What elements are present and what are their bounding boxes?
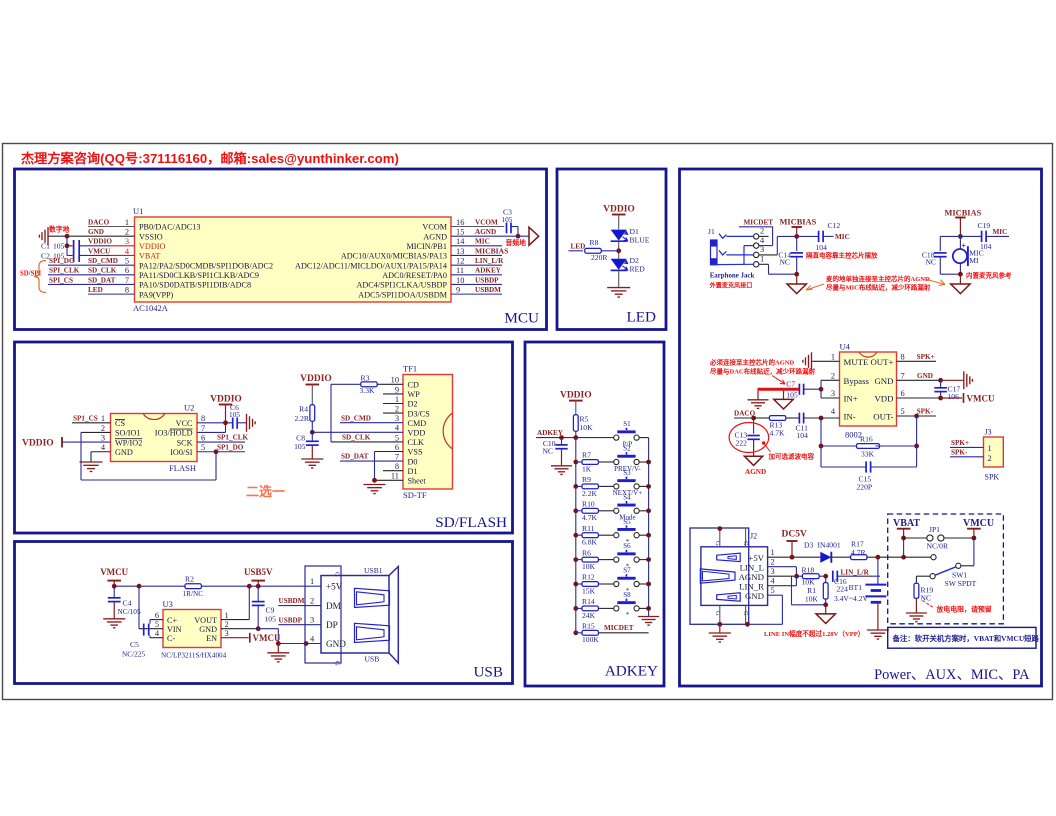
svg-text:SPK+: SPK+: [917, 353, 935, 361]
VDDIO power port LED block: [603, 205, 635, 230]
wire DACO to U1 pin 1: [88, 218, 135, 226]
svg-text:NC: NC: [925, 257, 936, 266]
U1 right pin numbers 16-9: [456, 218, 465, 295]
svg-text:7: 7: [201, 424, 205, 433]
svg-text:SP1_CS: SP1_CS: [73, 414, 98, 422]
svg-text:USB1: USB1: [364, 566, 383, 575]
svg-text:8: 8: [901, 352, 905, 361]
wire U1 pin 10 USBDP: [451, 276, 502, 284]
switch S5 spare: [614, 518, 649, 546]
wire D1 cathode to junction: [616, 241, 621, 259]
analog ground triangle mic section: [951, 272, 970, 294]
ground symbol under J2: [709, 633, 731, 642]
wire SD_CLK to TF1 CLK: [331, 434, 403, 442]
svg-text:PA10/SD0DATB/SPI1DIB/ADC8: PA10/SD0DATB/SPI1DIB/ADC8: [139, 281, 251, 290]
svg-text:2: 2: [310, 596, 314, 605]
svg-text:VBAT: VBAT: [893, 518, 920, 529]
svg-text:MICIN/PB1: MICIN/PB1: [407, 242, 448, 251]
svg-text:LED: LED: [626, 309, 656, 326]
ADKEY block title: [605, 663, 658, 680]
U4 internal labels and pin numbers: [831, 352, 905, 421]
svg-text:15: 15: [456, 228, 464, 237]
svg-text:G: G: [334, 572, 341, 577]
svg-text:S4: S4: [623, 493, 631, 501]
resistor R5 10K: [573, 414, 593, 437]
capacitor C9 105: [252, 586, 276, 629]
svg-text:3: 3: [125, 237, 129, 246]
svg-text:J2: J2: [750, 532, 757, 541]
svg-text:1: 1: [760, 255, 764, 264]
capacitor C17 106: [934, 380, 960, 401]
svg-text:C12: C12: [828, 221, 841, 230]
VDDIO power port to U2 pin 3: [22, 437, 111, 449]
wire U4 MUTE to ground: [812, 360, 840, 362]
resistor R1 10K to ground: [792, 576, 829, 607]
svg-text:GND: GND: [199, 625, 217, 634]
speaker connector J3: [984, 428, 1004, 482]
wire LED to U1 pin 8: [88, 286, 135, 294]
svg-text:SD_DAT: SD_DAT: [88, 276, 116, 284]
capacitor C13 222 optional: [735, 418, 760, 456]
wire GND net U1 pin 2: [48, 228, 135, 239]
svg-text:MICBIAS: MICBIAS: [780, 218, 817, 227]
svg-text:NC/0R: NC/0R: [927, 542, 949, 551]
capacitor C14 NC: [778, 236, 803, 274]
svg-text:U1: U1: [133, 206, 143, 216]
svg-text:AGND: AGND: [745, 468, 766, 476]
resistor R17 4.7R: [851, 540, 903, 560]
ground symbol under C8: [301, 459, 323, 468]
capacitor C8 105: [294, 432, 319, 459]
wire SD_DAT to TF1 D0: [340, 453, 403, 461]
resistor R3 3.3K pullup: [331, 373, 403, 395]
VMCU power port dashed box: [963, 518, 994, 540]
ground bars under red bar: [748, 391, 769, 409]
svg-text:USBDM: USBDM: [279, 597, 305, 605]
svg-text:VMCU: VMCU: [253, 633, 281, 643]
svg-text:C5: C5: [130, 640, 139, 649]
svg-text:C9: C9: [266, 605, 275, 614]
capacitor C6 105: [229, 403, 246, 429]
capacitor C2 105: [41, 240, 79, 262]
ADKEY right switch bus to ground: [646, 438, 651, 617]
red note internal mic reference: [966, 271, 1012, 280]
svg-text:DM: DM: [326, 601, 341, 611]
svg-text:VMCU: VMCU: [88, 247, 111, 255]
svg-text:VCOM: VCOM: [422, 223, 447, 232]
resistor R7 1K: [576, 451, 614, 474]
svg-text:IN4001: IN4001: [818, 541, 841, 550]
capacitor C11 104: [796, 413, 822, 440]
svg-text:5: 5: [901, 407, 905, 416]
svg-text:104: 104: [816, 243, 828, 252]
J1 pin contact circles: [754, 227, 766, 267]
svg-text:MICDET: MICDET: [744, 218, 774, 226]
svg-text:OUT-: OUT-: [873, 412, 893, 422]
svg-text:R12: R12: [582, 573, 595, 582]
svg-text:VDD: VDD: [408, 429, 426, 438]
svg-text:MICBIAS: MICBIAS: [945, 208, 982, 217]
svg-text:LINE IN幅度不超过1.28V（VPP）: LINE IN幅度不超过1.28V（VPP）: [764, 629, 864, 638]
svg-text:SD_CLK: SD_CLK: [342, 434, 371, 442]
capacitor C3 105: [502, 208, 513, 234]
switch S2 PREV/V-: [614, 445, 649, 473]
svg-text:必须连接至主控芯片的AGND: 必须连接至主控芯片的AGND: [710, 358, 794, 367]
wire AGND J2 pin 3: [768, 574, 799, 605]
wire U4 OUT- to SPK-: [897, 407, 937, 418]
svg-text:2.2K: 2.2K: [582, 489, 597, 498]
resistor R8 220R: [585, 238, 619, 262]
wire USBDM to USB1: [278, 597, 321, 605]
wire main 5V rail USB block: [112, 584, 321, 589]
svg-text:MCU: MCU: [504, 310, 539, 327]
svg-text:R9: R9: [582, 475, 591, 484]
J2 pin numbers and names: [739, 548, 776, 601]
svg-text:ADC0/RESET/PA0: ADC0/RESET/PA0: [382, 271, 447, 280]
wire jack tip to J1 pin 2: [726, 235, 753, 237]
svg-text:C1: C1: [41, 242, 50, 251]
J1 pin 2 stub wire: [759, 235, 769, 237]
ADKEY block frame: [525, 342, 664, 686]
svg-text:D1: D1: [408, 467, 418, 476]
microphone MIC MI: [953, 236, 984, 274]
feedback loop verticals: [819, 416, 919, 467]
svg-text:105: 105: [53, 242, 65, 251]
svg-text:SD_CMD: SD_CMD: [88, 257, 118, 265]
svg-text:104: 104: [980, 242, 992, 251]
svg-text:+5V: +5V: [748, 553, 764, 563]
svg-text:VIN: VIN: [167, 625, 182, 634]
svg-text:2: 2: [101, 424, 105, 433]
U1 internal pin names: [139, 223, 448, 300]
battery BT1 3.4V-4.2V: [834, 557, 886, 630]
wire TF1 Sheet pin to ground: [372, 478, 403, 483]
audio ground triangle: [506, 227, 539, 247]
svg-text:LIN_L/R: LIN_L/R: [475, 257, 504, 265]
svg-text:NC: NC: [779, 257, 790, 266]
svg-text:1: 1: [101, 414, 105, 423]
line-in connector J2 shell: [690, 528, 757, 624]
mcu U1 AC1042A body: [133, 206, 451, 313]
svg-text:10K: 10K: [805, 594, 819, 603]
svg-text:9: 9: [456, 286, 460, 295]
svg-text:IN-: IN-: [844, 412, 856, 422]
svg-text:FLASH: FLASH: [169, 463, 196, 473]
svg-text:S8: S8: [623, 591, 631, 599]
svg-text:LED: LED: [571, 242, 586, 250]
wire VMCU to U1 pin 4: [67, 247, 135, 255]
resistor R12 15K: [576, 573, 614, 596]
svg-text:ADC5/SPI1DOA/USBDM: ADC5/SPI1DOA/USBDM: [358, 290, 447, 299]
SD/FLASH block frame: [15, 342, 513, 533]
svg-text:Power、AUX、MIC、PA: Power、AUX、MIC、PA: [874, 667, 1030, 683]
svg-text:33K: 33K: [861, 450, 875, 459]
switch S7 spare: [614, 567, 649, 595]
svg-text:SO/IO1: SO/IO1: [115, 429, 140, 438]
svg-text:SD_CLK: SD_CLK: [88, 267, 117, 275]
svg-text:R10: R10: [582, 500, 595, 509]
amplifier U4 8002 body: [840, 342, 897, 440]
svg-text:1: 1: [310, 577, 314, 586]
svg-text:NC/LP3211S/HX4004: NC/LP3211S/HX4004: [161, 652, 227, 660]
svg-text:R18: R18: [802, 565, 815, 574]
svg-text:R5: R5: [580, 414, 589, 423]
capacitor C10 NC: [542, 438, 567, 466]
svg-text:106: 106: [948, 392, 960, 401]
svg-text:1K: 1K: [582, 464, 592, 473]
Power AUX MIC PA block frame: [680, 169, 1042, 686]
sd socket TF1 body: [403, 364, 453, 501]
svg-text:ADC10/AUX0/MICBIAS/PA13: ADC10/AUX0/MICBIAS/PA13: [341, 252, 447, 261]
TF1 stub pins 9 1 2 8: [383, 394, 403, 471]
svg-text:DC5V: DC5V: [782, 530, 807, 540]
MICBIAS power port J1 section: [780, 218, 817, 237]
resistor R6 10K: [576, 548, 614, 571]
VBAT power port: [893, 518, 920, 560]
svg-text:TF1: TF1: [403, 364, 417, 374]
svg-text:12: 12: [456, 257, 464, 266]
MCU block frame: [15, 169, 547, 330]
svg-text:GND: GND: [745, 591, 764, 601]
wire U2 pin 8 VCC to VDDIO and C6: [197, 420, 232, 425]
VDDIO power port ADKEY: [560, 390, 592, 415]
svg-text:222: 222: [736, 438, 748, 447]
svg-text:3: 3: [760, 245, 764, 254]
svg-text:IO0/SI: IO0/SI: [170, 448, 193, 457]
red note mic ground routing with arrows: [806, 274, 945, 292]
svg-text:VDDIO: VDDIO: [22, 439, 54, 449]
capacitor C18 NC branch: [922, 236, 961, 274]
svg-text:USB: USB: [365, 655, 380, 664]
svg-text:CS: CS: [115, 419, 125, 428]
svg-text:3: 3: [310, 616, 314, 625]
svg-text:8: 8: [201, 414, 205, 423]
svg-text:GND: GND: [115, 448, 133, 457]
resistor R18 10K: [797, 565, 829, 586]
svg-text:3: 3: [395, 414, 399, 423]
svg-text:D2: D2: [408, 400, 418, 409]
svg-text:3: 3: [225, 629, 229, 638]
svg-text:VMCU: VMCU: [967, 394, 995, 404]
USB1 pin numbers and names: [310, 577, 346, 649]
svg-text:100K: 100K: [582, 635, 599, 644]
wire SP1_CLK from U2 pin 6: [197, 434, 249, 442]
svg-text:音频地: 音频地: [506, 238, 527, 247]
analog ground triangle J1 section: [787, 274, 806, 293]
svg-text:R4: R4: [299, 404, 308, 413]
svg-text:ADC12/ADC11/MICLDO/AUX1/PA15/P: ADC12/ADC11/MICLDO/AUX1/PA15/PA14: [295, 261, 447, 270]
digital ground symbol left of U1: [39, 225, 69, 246]
svg-text:USBDM: USBDM: [475, 286, 501, 294]
ground symbol under C10: [551, 466, 572, 475]
svg-text:105: 105: [265, 615, 277, 624]
svg-text:BLUE: BLUE: [630, 235, 650, 244]
capacitor C4 NC/105: [108, 586, 141, 619]
svg-text:5: 5: [395, 433, 399, 442]
svg-text:D0: D0: [408, 457, 418, 466]
svg-text:D3/CS: D3/CS: [408, 409, 431, 418]
wire USBDP to USB1: [278, 616, 321, 624]
svg-text:MUTE: MUTE: [844, 357, 869, 367]
svg-text:LIN_R: LIN_R: [739, 581, 764, 591]
svg-text:NC/105: NC/105: [118, 607, 141, 616]
svg-text:SD/FLASH: SD/FLASH: [435, 514, 507, 531]
ground symbol under BT1: [867, 630, 889, 639]
svg-text:1R/NC: 1R/NC: [183, 589, 204, 598]
svg-text:10K: 10K: [580, 423, 594, 432]
wire C11 to U4 IN-: [819, 416, 840, 421]
svg-text:S1: S1: [623, 420, 631, 428]
svg-text:VOUT: VOUT: [194, 616, 217, 625]
svg-text:224: 224: [837, 584, 849, 593]
svg-text:USB: USB: [473, 664, 503, 681]
capacitor C15 220P feedback: [821, 461, 917, 491]
resistor R19 NC discharge: [914, 576, 933, 613]
svg-text:S2: S2: [623, 445, 631, 453]
ground symbol under R19: [906, 613, 927, 622]
capacitor C1 105: [41, 240, 74, 262]
svg-text:LIN_L/R: LIN_L/R: [841, 568, 870, 576]
svg-text:J1: J1: [708, 227, 715, 236]
wire U1 pin 14 MIC: [451, 238, 502, 246]
Earphone Jack captions: [709, 272, 755, 289]
svg-text:PB0/DAC/ADC13: PB0/DAC/ADC13: [139, 223, 200, 232]
svg-text:S6: S6: [623, 542, 631, 550]
svg-text:U3: U3: [163, 599, 173, 609]
svg-text:SPK-: SPK-: [917, 407, 934, 415]
svg-text:24K: 24K: [582, 611, 596, 620]
svg-text:VCOM: VCOM: [475, 218, 498, 226]
svg-text:R3: R3: [361, 373, 370, 382]
svg-text:WP/IO2: WP/IO2: [115, 438, 142, 447]
svg-text:SPI_CS: SPI_CS: [49, 276, 73, 284]
svg-text:PA12/PA2/SD0CMDB/SPI1DOB/ADC2: PA12/PA2/SD0CMDB/SPI1DOB/ADC2: [139, 261, 273, 270]
svg-text:+5V: +5V: [326, 582, 343, 592]
svg-text:VDDIO: VDDIO: [88, 238, 112, 246]
resistor R9 2.2K: [576, 475, 614, 498]
svg-text:VSS: VSS: [408, 448, 423, 457]
svg-text:MI: MI: [969, 256, 979, 265]
MICDET net label: [604, 624, 634, 632]
TF1 pin numbers: [391, 376, 400, 481]
wire TF1 VSS to sheet ground: [375, 452, 404, 481]
svg-text:备注：软开关机方案时，VBAT和VMCU短路: 备注：软开关机方案时，VBAT和VMCU短路: [892, 634, 1040, 643]
svg-text:DACO: DACO: [88, 218, 110, 226]
wire LIN_L J2 pin 2: [768, 567, 797, 577]
svg-text:R7: R7: [582, 451, 591, 460]
capacitor C12 104 to MIC net: [816, 221, 850, 252]
red note discharge resistor: [923, 601, 992, 614]
J2 shell grounding: [717, 526, 750, 633]
resistor R2 1R/NC: [183, 575, 204, 598]
wire U2 pin 7 HOLD up to VCC node: [197, 423, 226, 433]
svg-text:11: 11: [456, 266, 464, 275]
capacitor C16 224 to LIN_L/R: [833, 568, 880, 593]
wire VDDIO to U1 pin 3: [67, 238, 135, 246]
ground rotated right of C6: [247, 414, 256, 432]
AGND triangle under R1: [816, 605, 835, 624]
earphone jack J1 body: [708, 227, 726, 265]
svg-text:USBDP: USBDP: [475, 276, 499, 284]
svg-text:SD_DAT: SD_DAT: [341, 453, 369, 461]
svg-text:220P: 220P: [857, 483, 873, 492]
switch S6 spare: [614, 542, 649, 570]
USB5V power port: [244, 567, 273, 586]
svg-text:C+: C+: [167, 616, 177, 625]
svg-text:10K: 10K: [582, 562, 596, 571]
svg-text:Earphone Jack: Earphone Jack: [710, 272, 755, 279]
svg-text:MIC: MIC: [835, 233, 850, 241]
AGND emphasized red bar at C7: [758, 388, 800, 391]
wire U1 pin 11 ADKEY: [451, 267, 502, 275]
VDDIO power port above R4: [300, 374, 332, 405]
wire ADKEY net: [536, 429, 614, 440]
U3 internal labels and pin numbers: [155, 611, 229, 643]
svg-text:6.8K: 6.8K: [582, 538, 597, 547]
ground symbol TF1: [363, 485, 385, 494]
ground symbol U2: [79, 462, 102, 471]
wire SPK- to J3 pin 2: [950, 448, 984, 456]
svg-text:R14: R14: [582, 597, 595, 606]
svg-text:3: 3: [831, 389, 835, 398]
usb connector USB1: [305, 566, 398, 666]
svg-text:2: 2: [225, 620, 229, 629]
svg-text:8: 8: [125, 286, 129, 295]
svg-text:2: 2: [125, 228, 129, 237]
svg-text:2: 2: [831, 371, 835, 380]
svg-text:S5: S5: [623, 518, 631, 526]
resistor R15 100K: [576, 622, 649, 645]
svg-text:CLK: CLK: [408, 438, 424, 447]
svg-text:GND: GND: [88, 228, 104, 236]
svg-text:SP1_DO: SP1_DO: [217, 443, 244, 451]
wire J1 pin 3 to MIC rail: [759, 234, 818, 255]
wire SP1_CS to U2 pin 1: [72, 414, 111, 422]
svg-text:3.4V~4.2V: 3.4V~4.2V: [834, 594, 869, 603]
wire VMCU to SW1 throw: [961, 538, 974, 566]
capacitor C5 NC/225 flying: [122, 620, 163, 659]
svg-text:5: 5: [771, 586, 775, 595]
wire U4 GND pin to power ground: [897, 372, 964, 383]
VDDIO power port above C6: [210, 395, 242, 423]
svg-text:1: 1: [125, 218, 129, 227]
svg-text:VMCU: VMCU: [963, 518, 994, 529]
svg-text:U2: U2: [184, 403, 194, 413]
wire U1 pin 12 LIN_L/R: [451, 257, 504, 265]
wire SPI_CS / SD_DAT to U1 pin 7: [48, 276, 135, 284]
svg-text:2.2R: 2.2R: [294, 414, 309, 423]
wire U4 Bypass and IN+ junction: [819, 380, 840, 398]
svg-text:外置麦克风接口: 外置麦克风接口: [709, 281, 753, 289]
svg-text:6: 6: [155, 611, 159, 620]
AGND triangle under C13: [744, 456, 766, 476]
flash U2 body: [111, 403, 198, 474]
wire SPI_CLK / SD_CLK to U1 pin 6: [48, 267, 135, 275]
switch S3 NEXT/V+: [613, 469, 649, 497]
U1 left pin numbers 1-8: [125, 218, 130, 295]
svg-text:AGND: AGND: [475, 228, 496, 236]
svg-text:6: 6: [395, 443, 399, 452]
wire LIN_R J2 pin 4: [768, 576, 797, 586]
svg-text:1: 1: [395, 395, 399, 404]
svg-text:SPK-: SPK-: [951, 448, 968, 456]
svg-text:14: 14: [456, 237, 465, 246]
svg-text:6: 6: [901, 389, 905, 398]
svg-text:15K: 15K: [582, 586, 596, 595]
svg-text:C7: C7: [786, 380, 795, 389]
svg-text:MICBIAS: MICBIAS: [475, 246, 508, 255]
svg-text:ADKEY: ADKEY: [605, 663, 658, 680]
